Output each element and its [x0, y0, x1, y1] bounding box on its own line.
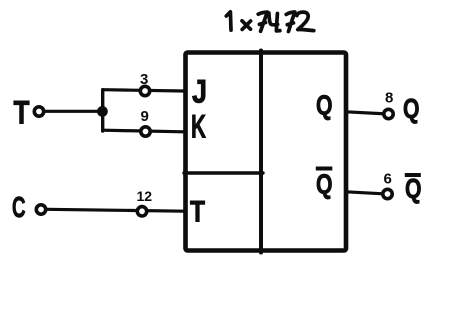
IC internal horizontal divider — [184, 171, 263, 174]
svg-text:6: 6 — [384, 171, 392, 188]
wire output Q — [346, 112, 385, 114]
junction node dot — [97, 106, 108, 117]
svg-text:C: C — [12, 192, 26, 224]
terminal circle T input — [34, 107, 43, 116]
svg-text:T: T — [190, 196, 205, 229]
wire top branch to pin J — [103, 90, 184, 91]
terminal circle pin 8 — [384, 109, 393, 118]
svg-text:8: 8 — [385, 90, 393, 107]
svg-text:Q: Q — [316, 90, 333, 121]
svg-text:9: 9 — [141, 108, 149, 125]
wire T input to junction — [45, 110, 103, 113]
value label "1 x 7472" (title) — [226, 12, 313, 32]
svg-text:Q: Q — [405, 173, 422, 204]
wire C input to pin T — [47, 209, 186, 211]
wire bottom branch to pin K — [103, 130, 184, 132]
svg-text:T: T — [14, 95, 30, 131]
IC U1 7472 box outline — [186, 53, 347, 251]
svg-text:K: K — [191, 109, 206, 145]
svg-text:Q: Q — [403, 93, 420, 124]
IC internal vertical divider — [259, 51, 263, 253]
svg-text:Q: Q — [316, 169, 333, 200]
terminal circle pin 3 — [140, 86, 149, 95]
wire branch vertical — [101, 90, 104, 131]
terminal circle C input — [36, 205, 45, 214]
terminal circle pin 6 — [383, 189, 392, 198]
terminal circle pin 9 — [141, 127, 150, 136]
svg-text:12: 12 — [137, 188, 153, 204]
terminal circle pin 12 — [137, 207, 146, 216]
wire output Qbar — [346, 192, 384, 194]
svg-text:3: 3 — [140, 71, 148, 88]
svg-text:J: J — [192, 74, 207, 110]
